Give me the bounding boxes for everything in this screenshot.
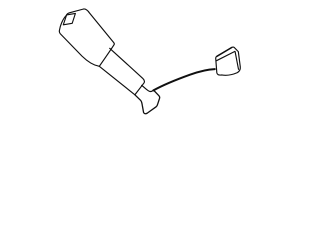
anchor plate body — [135, 90, 160, 114]
buckle belt slot — [63, 13, 75, 24]
stalk bottom edge — [99, 66, 135, 95]
connector front-right inner edge — [235, 52, 238, 70]
buckle head outline — [59, 9, 114, 66]
connector front-top inner edge — [217, 51, 235, 60]
anchor saddle line — [142, 85, 154, 91]
wire from anchor to connector — [153, 69, 214, 90]
connector top-left thick edge — [217, 48, 232, 57]
stalk top edge with rounded end — [110, 48, 145, 94]
connector outer outline — [216, 47, 241, 75]
